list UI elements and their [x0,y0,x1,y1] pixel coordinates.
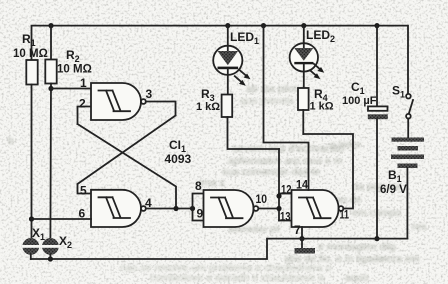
node junction 12 [276,193,281,198]
wire pin14 VDD [264,26,309,190]
node junction pin7 rail [299,236,304,241]
wire cross out4 to pin2 [78,124,177,209]
wire bracket pins 12,13 + R3 feed [278,149,280,221]
svg-text:10 MΩ: 10 MΩ [57,64,92,76]
node junction out10 at bracket 12-13 [276,206,281,211]
op-amp gate U1b NAND 4093 pins 5,6,4 [91,190,141,227]
ground symbol [295,248,316,254]
node top rail junction R2 [48,23,53,28]
svg-text:7: 7 [294,223,301,237]
wire pin6 [32,218,92,220]
node junction out4 cross [173,206,178,211]
LED2 [290,43,318,88]
node top rail junction pin14 line [261,23,266,28]
svg-text:8: 8 [195,179,202,193]
battery B1 [391,138,424,169]
svg-text:10: 10 [256,192,268,206]
svg-text:13: 13 [280,210,291,224]
svg-text:4: 4 [145,196,152,210]
svg-text:6: 6 [79,207,86,221]
wire R4 bottom to out11 [302,110,304,134]
op-amp gate U1d NAND 4093 pins 12,13,11 [292,190,339,227]
wire LED2 top [303,26,305,44]
wire pin1 [51,88,91,90]
resistor R1 [26,60,37,85]
switch S1 [406,94,411,99]
svg-text:12: 12 [281,183,292,197]
wire pin2 stub [78,107,92,125]
svg-text:combinlove a siaradh e chaufdn: combinlove a siaradh e chaufdnese a [150,272,324,284]
node top rail junction LED2 [301,23,306,28]
wire bracket pins 8,9 [193,194,204,221]
svg-text:sua comander das te: sua comander das te [222,166,320,178]
svg-text:res: res [412,221,427,233]
wire R2 top [50,26,52,60]
wire LED1 top [227,26,229,46]
op-amp gate U1c NAND 4093 pins 8,9,10 [204,190,254,227]
resistor R3 [222,95,233,118]
svg-text:1 kΩ: 1 kΩ [196,101,220,113]
svg-text:3: 3 [146,87,153,101]
LED1 [213,46,242,95]
node junction X2 rail [48,256,53,261]
capacitor C1 [368,106,388,110]
svg-text:1 kΩ: 1 kΩ [310,101,334,113]
svg-text:11: 11 [340,208,350,222]
wire battery minus to rail [406,168,408,239]
svg-text:5: 5 [80,184,87,198]
wire out3 [146,102,176,116]
wire C1 bottom [376,119,378,238]
LED1 arrows [235,70,251,86]
svg-text:e montagem dilg: e montagem dilg [318,241,396,253]
LED2 arrows [310,64,324,79]
svg-text:100 µF: 100 µF [342,95,377,107]
svg-text:9: 9 [197,207,204,221]
sensor X2 [42,238,60,259]
wire ground rail [31,239,408,259]
svg-text:quo menois: quo menois [240,95,294,107]
node junction pin6 [29,216,34,221]
wire out10 to pins 12,13 [258,208,279,210]
wire out4 to pins 8,9 [146,208,193,210]
wire R2 bottom to X2 [49,84,52,239]
svg-text:aquo: aquo [345,272,369,284]
svg-text:10 MΩ: 10 MΩ [13,48,48,60]
wire top supply rail [32,26,409,94]
node top rail junction LED1 [225,23,230,28]
op-amp gate U1a NAND 4093 pins 1,2,3 [91,83,141,120]
svg-text:2: 2 [79,97,86,111]
svg-text:veza em: veza em [380,253,420,265]
wire ground stub [301,239,303,248]
svg-text:o leitor: o leitor [330,139,362,151]
wire pin7 to ground rail [301,227,303,239]
svg-text:6/9 V: 6/9 V [380,184,407,196]
node top rail junction C1 [374,23,379,28]
faint page bleed-through (decorative) [8,83,427,284]
wire out11 up to R4 [303,134,353,209]
wire R1 bottom to X1 [31,85,33,239]
svg-text:4093: 4093 [165,152,192,166]
wire R3 bottom to pins 12,13 [228,117,280,149]
node junction at bracket 8-9 [190,206,195,211]
svg-text:b: b [8,135,14,147]
wire C1 top [376,26,378,107]
svg-text:ab sta pilot a: ab sta pilot a [246,83,306,95]
resistor R2 [45,60,56,84]
svg-text:14: 14 [296,178,308,192]
node junction C1 rail [374,236,379,241]
svg-text:1: 1 [80,76,87,90]
node junction pin1 [48,86,53,91]
sensor X1 [22,238,40,259]
resistor R4 [298,88,309,110]
wire cross out3 to pin5 [78,116,176,194]
